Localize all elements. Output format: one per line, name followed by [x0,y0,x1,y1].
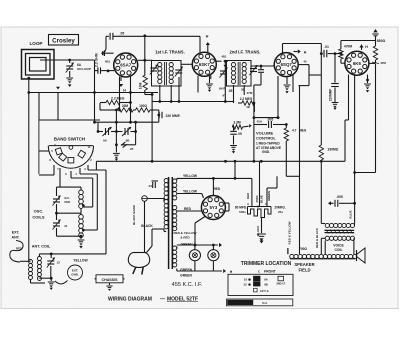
capacitor loop coupling [95,67,115,73]
speaker field coil [290,254,357,258]
wire 4B down [223,61,233,101]
wire resrow links [100,103,132,111]
capacitor .01 [321,45,342,58]
speaker cone [357,248,366,263]
label RED&YELLOW vert [287,221,291,244]
Crosley logo box [49,35,79,46]
wire trimmer right [121,122,136,145]
fuse [142,196,148,202]
node 220mmf [334,52,337,55]
trimmer B.C. PAD [53,187,71,213]
wire cap to grid [104,36,106,53]
ant coil secondary [37,257,41,281]
osc coil 2 [79,215,84,238]
node loop bottom [27,77,30,80]
label 700 [299,247,307,251]
label SCREEN BLU [255,195,263,203]
capacitor .005 (tone) [254,117,288,128]
wire fb right [286,175,299,177]
wire trimmer top [93,121,159,124]
wire 2.2ohm drop [94,60,96,71]
node bus1 [93,71,96,123]
label GREEN vert [267,191,271,201]
resistor 2.2 MEG [100,97,125,105]
label C FRONT [258,270,277,274]
label RED vert [246,192,250,199]
1st IF transformer can [152,61,182,87]
resistor 470M [339,41,353,64]
output transformer primary [325,223,354,227]
ground 6SQ7 cathode [284,77,291,94]
resistor 2.2 MEG (2nd det) [240,97,255,109]
wire 2nd IF bottom drops [234,85,255,112]
wire plate drop [144,36,146,61]
wire loop to bus [28,78,30,92]
label GREEN [180,243,193,247]
node 6SA7 right [138,59,152,62]
wire 6SQ7 to C.01 [309,74,321,76]
1st IF core [165,62,167,85]
ground 6K6 cathode [364,75,371,93]
wire 5Y3 filament [194,217,205,247]
node top bus [143,34,146,37]
heater arrow 6K6 [359,45,368,51]
wire main bus y161 [96,160,345,163]
ext ant lead [10,241,23,263]
wire top bus 6SA7-6SK7 [113,36,200,52]
label BLACK BAND [132,204,136,225]
wire 2ndIF to 6SQ7 grid [251,65,274,68]
wire trimmer row [97,122,137,133]
label A B C [247,202,267,209]
label VOLUME CONTROL [256,131,281,154]
wire osc tap2 [82,174,97,231]
label GREEN bottom [180,274,192,278]
grid cap connector 6SA7 [101,50,114,56]
wire bus to band [95,161,97,170]
wire osc bottom [57,235,83,238]
label RED mid [184,207,192,211]
osc coil 1 [79,190,84,208]
label VOICE COIL [333,244,344,252]
band switch contacts [49,144,94,176]
pot wiper [243,124,252,128]
resistor 22M [113,104,133,112]
resistor 680 [369,39,386,64]
wire ant coil top [39,253,106,257]
wire trimmer center [115,109,118,147]
wire 5Y3 plate drop [212,178,214,195]
wire electrolytic gnd [261,218,263,234]
wire osc right x106 [105,170,107,254]
wire bus y101 [152,100,227,103]
power transformer core [169,177,173,269]
ext gnd circle [68,265,83,280]
label GREEN 2 [180,268,193,272]
wire 1st IF bottom [160,77,179,102]
label ANT COIL [32,244,51,248]
resistor 3.3M [232,121,242,131]
capacitor line .01 [148,181,158,188]
tube V5 5Y3 [201,196,225,220]
resistor 330M [319,145,339,160]
wire osc top [57,187,82,190]
ground 6SK7 cathode [206,76,213,92]
1st IF trimmer left [150,65,158,75]
label 45 [303,60,307,64]
wire 6SK7 pins down [198,76,211,93]
tube V1 6SA7 [114,53,138,77]
wire red to filter [235,177,252,179]
wire 6SK7 grid [181,63,192,65]
label 42A [257,120,263,124]
wire band switch left [39,150,49,152]
2nd IF secondary coil [242,63,246,84]
trimmer 6A ON LOOP [66,60,91,77]
wire 130 drop [123,91,132,124]
label YELLOW 5Y3 [0,0,1,1]
wire cord [145,222,167,253]
1st IF secondary coil [169,63,173,84]
trimmer 13 [47,254,60,278]
ant coil primary [29,260,33,280]
resistor 10M [139,60,153,94]
wire 6SK7 to 2nd IF [216,55,228,63]
wire ext ant in [20,260,31,262]
wire xfmr top yellow [176,178,178,180]
trimmer 9B [122,127,131,143]
2nd IF trimmer right [250,65,258,75]
node bus x225 [224,160,227,163]
2nd IF trimmer left [220,68,228,78]
label YELLOW ant [73,258,88,262]
ext gnd lead [55,281,68,284]
label 2.2 OHM [95,53,99,67]
wire avc x299 [299,86,301,254]
node loop tap [68,59,71,62]
1st IF primary coil [158,63,162,84]
ground chassis [106,283,112,291]
wire 6SQ7 pin drop [277,92,280,119]
wire vert x321 [320,44,322,146]
wire b+ x375 down [353,64,375,174]
xfmr primary coil [164,179,168,229]
capacitor 220MMF vert [329,54,339,102]
ground ant coil [48,278,55,290]
B+ symbol top right [372,29,378,41]
wire osc mid [55,209,81,215]
resistor 100 [133,104,158,122]
volume pot [253,118,255,162]
trimmer location box [228,274,293,295]
wire bus y92.5 [29,92,158,94]
wire 6SQ7 pins [278,65,309,92]
label 1st IF TRANS [155,50,185,55]
wire loop output [40,59,95,61]
label TRIMMER LOCATION [241,261,292,267]
tube V2 6SK7 [192,52,216,76]
wire 5Y3 plates [177,194,204,212]
2nd IF core [238,62,240,85]
heater arrow 6SQ7 [294,49,307,54]
label RED 5Y3 [213,187,220,191]
ground under 220MMF [332,103,339,111]
ground band switch [113,145,120,161]
wires band switch bottom [39,165,106,187]
output transformer secondary [325,236,354,240]
trimmer 9A [103,127,112,143]
label BLACK [141,224,153,228]
ground electrolytic [257,234,266,244]
wire red-yellow drop [287,248,289,254]
wire fb x345 [344,120,346,161]
wire 5Y3 right [224,203,229,211]
xfmr filament winding [173,246,177,267]
capacitor diode filter [253,66,265,118]
node grid cap junction [107,70,110,73]
wire fuse to xfmr [145,199,165,223]
wire electrolytic feeds [252,161,277,206]
loop antenna L1 [22,50,55,80]
heater arrow band [56,87,60,120]
wire ant coil bottom [31,277,53,283]
label SPEAKER FIELD [294,262,314,273]
power plug [128,253,149,275]
back view bar [226,299,292,306]
resistor 47M 3B [241,88,253,96]
title WIRING DIAGRAM [108,297,198,303]
label 4B1 [105,59,111,63]
chassis box [95,275,125,283]
resistor 4.7 MEG [284,125,307,177]
band switch enclosure [39,120,100,174]
capacitor WHT .05 [219,87,233,98]
wire 6SQ7 plate top [283,44,322,54]
wire bus drop x235 [234,160,237,178]
wire 6K6 plate down [354,75,356,202]
heater arrow 6SA7 [119,77,126,93]
capacitor 220 MMF (osc) [157,112,180,119]
node bus x261 [260,160,263,163]
1st IF trimmer right [175,67,183,77]
output transformer core [325,229,355,233]
wire band drop x39 [38,93,40,121]
heater arrow 6SK7 [206,35,210,53]
trimmer marks [243,276,286,293]
label 47M right [372,61,386,65]
node 1st IF bottom [151,93,181,103]
wire osc tap1 [82,178,93,207]
wire yellow top [177,174,237,180]
wire x152 drop [151,93,153,162]
label LOOP [29,41,42,46]
label BLUE vert [349,210,353,218]
label 20MFD [274,206,285,214]
label BLACK vert [256,225,260,236]
label 455KC [172,282,203,288]
ground osc coils [78,236,85,248]
wire loop to ant coil [27,91,30,261]
xfmr HV secondary 2 [173,206,177,231]
label 80MFD [235,206,247,214]
band switch rotor [48,146,93,169]
2nd IF primary coil [231,63,235,84]
2nd IF transformer can [227,61,252,87]
tube V4 6K6 [345,51,369,75]
wire 6SA7 pins down [120,77,131,104]
xfmr HV secondary [173,179,177,200]
label BAND SWITCH [54,136,85,141]
scan noise overlay [0,0,1,1]
electrolytic 80MFD/20MFD [248,207,272,223]
node out cap [353,202,356,205]
pilot lamp 2 [208,245,219,261]
capacitor .005 out [328,195,355,207]
capacitor .05 (6SA7 plate) [106,32,124,40]
ground vol [230,146,237,154]
label EXT ANT [12,231,20,240]
tube V3 6SQ7 [274,53,298,77]
label OSC COILS [32,209,45,220]
ground below loop trimmer [66,78,73,87]
wire 6K6 screen down [345,75,349,121]
label YELLOW 2 [183,189,198,193]
heater arrow rect [177,243,222,249]
node bus x322 [320,160,323,163]
trimmer 41 [53,213,68,236]
pilot lamp 1 [189,244,200,261]
capacitor 25 diag [121,142,134,151]
node bus x253 [253,160,256,163]
wire top right bus [341,40,376,42]
capacitor .05 vol [230,131,242,144]
label YEL RED [174,231,197,240]
wire osec ends [321,238,354,254]
wire lamp bottom [177,261,233,274]
wire field left [287,248,289,254]
label 2nd IF TRANS [230,50,261,55]
node c01 left [320,52,323,55]
wire otp ends [321,161,354,225]
label RED&BLACK vert [315,227,319,248]
wire pot top [253,116,280,119]
